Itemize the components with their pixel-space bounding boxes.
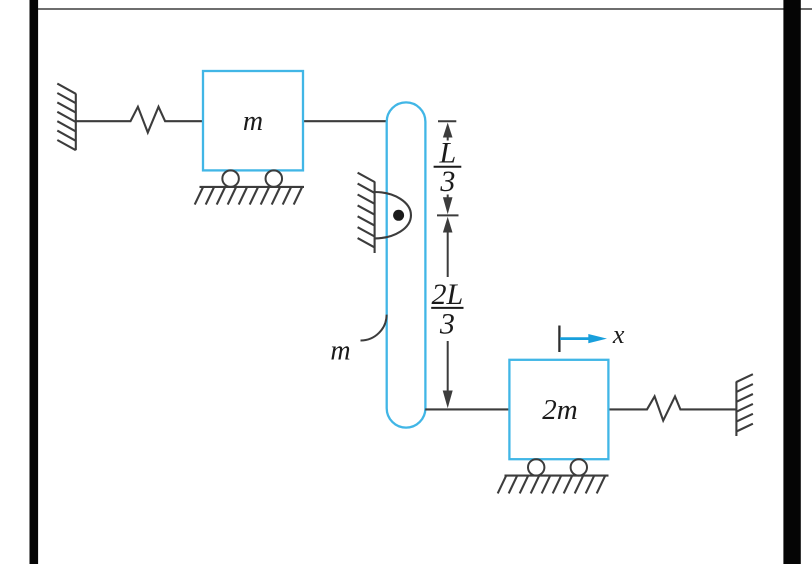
svg-text:3: 3 <box>439 308 455 341</box>
svg-text:m: m <box>243 106 263 137</box>
dimension L/3 up arrow <box>443 123 453 138</box>
pivot bearing (half ellipse) <box>375 192 411 238</box>
roller under m1 left <box>222 170 239 187</box>
page frame right bar <box>783 0 800 564</box>
page frame left bar <box>30 0 39 564</box>
mass m2 block (2m) <box>509 360 608 459</box>
svg-text:3: 3 <box>439 165 455 198</box>
svg-text:m: m <box>330 335 350 366</box>
svg-text:2m: 2m <box>542 394 577 426</box>
spring k1 (with connecting rods) <box>76 107 203 133</box>
mass m1 block <box>203 71 303 170</box>
wire: rod from mass m1 to lever bar <box>303 120 387 122</box>
dimension tick at pivot level <box>437 214 459 216</box>
ground under m1 <box>195 187 304 205</box>
spring k2 (with connecting rods) <box>608 396 736 420</box>
roller under m2 right <box>571 459 587 475</box>
roller under m2 left <box>528 459 544 475</box>
reference tick for x <box>558 326 560 353</box>
dimension L/3 down arrow <box>447 195 449 200</box>
dimension 2L/3 down arrow <box>447 341 449 395</box>
wall W1 (left fixed support) <box>57 84 76 151</box>
wire: rod from bar bottom to mass m2 <box>425 408 509 410</box>
svg-text:x: x <box>612 320 625 349</box>
dimension L/3 top tick <box>438 120 456 122</box>
displacement arrow x <box>560 337 590 340</box>
leader curve for bar label m <box>361 315 387 341</box>
pivot point dot <box>393 210 404 221</box>
page frame top rule <box>33 8 812 10</box>
wall W2 (right fixed support) <box>736 374 753 436</box>
rigid lever bar (capsule) <box>387 102 426 427</box>
ground under m2 <box>498 476 609 494</box>
svg-text:2L: 2L <box>432 278 464 311</box>
pivot support wall <box>358 173 375 253</box>
roller under m1 right <box>266 170 283 187</box>
dimension 2L/3 up arrow <box>443 217 453 233</box>
